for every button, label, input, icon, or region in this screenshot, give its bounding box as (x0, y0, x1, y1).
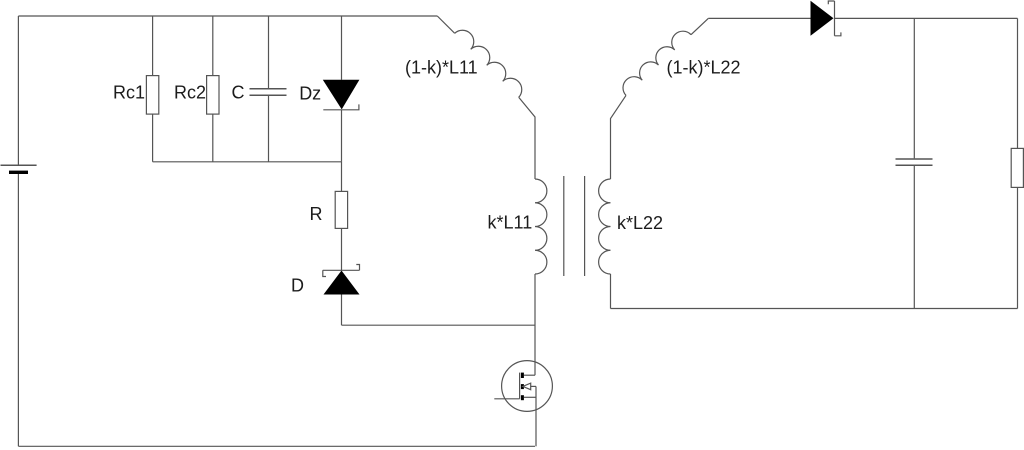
capacitor Cout (896, 18, 933, 308)
inductor k*L11 (535, 179, 547, 274)
wire secondary winding bottom lead (610, 274, 612, 309)
wire D to drain (342, 324, 536, 326)
svg-text:Rc1: Rc1 (113, 83, 145, 103)
battery V1 (1, 165, 37, 174)
capacitor C (250, 16, 287, 162)
inductor k*L22 (599, 179, 611, 274)
zener diode Dz (323, 16, 360, 162)
wire bottom rail (18, 445, 535, 447)
resistor Rload (1011, 18, 1023, 308)
resistor R (335, 162, 347, 270)
diode D2 (output schottky) (811, 1, 841, 36)
wire secondary bottom rail (611, 308, 1018, 310)
wire top-left rail (18, 15, 437, 17)
wire top diagonal into leakage inductor (437, 16, 454, 33)
inductor (1-k)*L22 (623, 31, 691, 95)
transformer core (564, 176, 585, 276)
wire top-right rail right of diode (835, 17, 1018, 19)
wire secondary winding top lead (611, 95, 627, 179)
diode D (323, 265, 360, 326)
svg-text:C: C (232, 83, 245, 103)
wire diagonal to primary winding (519, 97, 535, 179)
resistor Rc2 (207, 16, 219, 162)
wire left vertical upper (17, 16, 19, 165)
wire top-right rail left of diode (708, 17, 810, 19)
wire left vertical lower (17, 174, 19, 446)
wire mid rail (snubber bottom) (153, 161, 342, 163)
resistor Rc1 (146, 16, 158, 162)
svg-text:R: R (310, 204, 323, 224)
MOSFET Q1 (494, 361, 552, 447)
svg-text:D: D (291, 275, 304, 295)
svg-text:(1-k)*L11: (1-k)*L11 (405, 57, 478, 77)
svg-text:Rc2: Rc2 (174, 83, 206, 103)
wire primary winding to MOSFET drain (534, 274, 536, 375)
svg-text:k*L22: k*L22 (617, 213, 663, 233)
svg-text:k*L11: k*L11 (488, 213, 533, 233)
inductor (1-k)*L11 (455, 30, 522, 97)
svg-text:Dz: Dz (299, 83, 321, 103)
svg-text:(1-k)*L22: (1-k)*L22 (667, 58, 741, 78)
wire diagonal to top-right rail (691, 18, 708, 34)
